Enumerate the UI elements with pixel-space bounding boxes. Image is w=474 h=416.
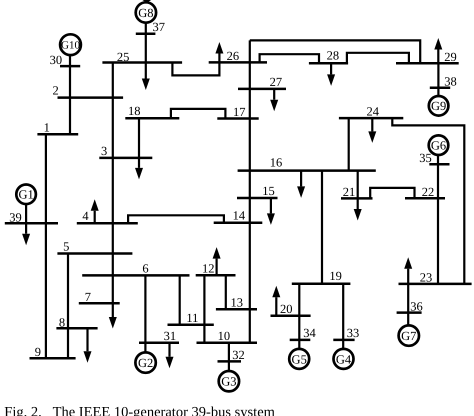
svg-text:15: 15 [262,184,275,198]
svg-text:G2: G2 [138,356,153,370]
svg-text:32: 32 [232,348,245,362]
svg-text:11: 11 [186,311,198,325]
svg-text:22: 22 [422,185,435,199]
svg-text:36: 36 [410,299,423,313]
svg-text:9: 9 [35,345,41,359]
svg-text:8: 8 [59,315,65,329]
svg-text:34: 34 [303,326,316,340]
svg-text:39: 39 [9,210,21,224]
svg-text:16: 16 [270,156,283,170]
svg-text:30: 30 [50,53,63,67]
svg-text:37: 37 [153,20,166,34]
svg-text:G7: G7 [401,329,416,343]
svg-text:24: 24 [367,104,380,118]
svg-text:25: 25 [117,50,129,64]
svg-text:2: 2 [53,84,59,98]
svg-text:G4: G4 [336,352,352,366]
svg-text:26: 26 [227,49,240,63]
svg-text:1: 1 [44,120,50,134]
svg-text:Fig. 2. The IEEE 10-generato: Fig. 2. The IEEE 10-generator 39-bus sys… [4,405,275,416]
svg-text:31: 31 [164,329,177,343]
svg-text:38: 38 [444,75,457,89]
svg-text:14: 14 [233,208,246,222]
svg-text:17: 17 [233,105,246,119]
svg-text:G6: G6 [431,139,446,153]
svg-text:G9: G9 [431,99,446,113]
svg-text:13: 13 [231,295,244,309]
svg-text:3: 3 [101,144,107,158]
svg-text:G1: G1 [18,188,33,202]
svg-text:19: 19 [329,269,342,283]
svg-text:G3: G3 [221,375,236,389]
svg-text:28: 28 [327,49,340,63]
svg-text:21: 21 [343,185,356,199]
svg-text:33: 33 [347,326,360,340]
svg-text:12: 12 [202,262,215,276]
svg-text:G10: G10 [61,40,80,52]
svg-text:G5: G5 [292,352,307,366]
svg-text:6: 6 [142,261,148,275]
svg-text:35: 35 [419,151,432,165]
svg-text:29: 29 [444,50,457,64]
svg-text:5: 5 [63,240,69,254]
svg-text:G8: G8 [138,6,153,20]
svg-text:20: 20 [280,302,293,316]
svg-text:27: 27 [270,75,283,89]
svg-text:10: 10 [218,329,231,343]
svg-text:4: 4 [82,209,89,223]
svg-text:18: 18 [128,104,141,118]
svg-text:7: 7 [85,290,91,304]
svg-text:23: 23 [420,270,433,284]
